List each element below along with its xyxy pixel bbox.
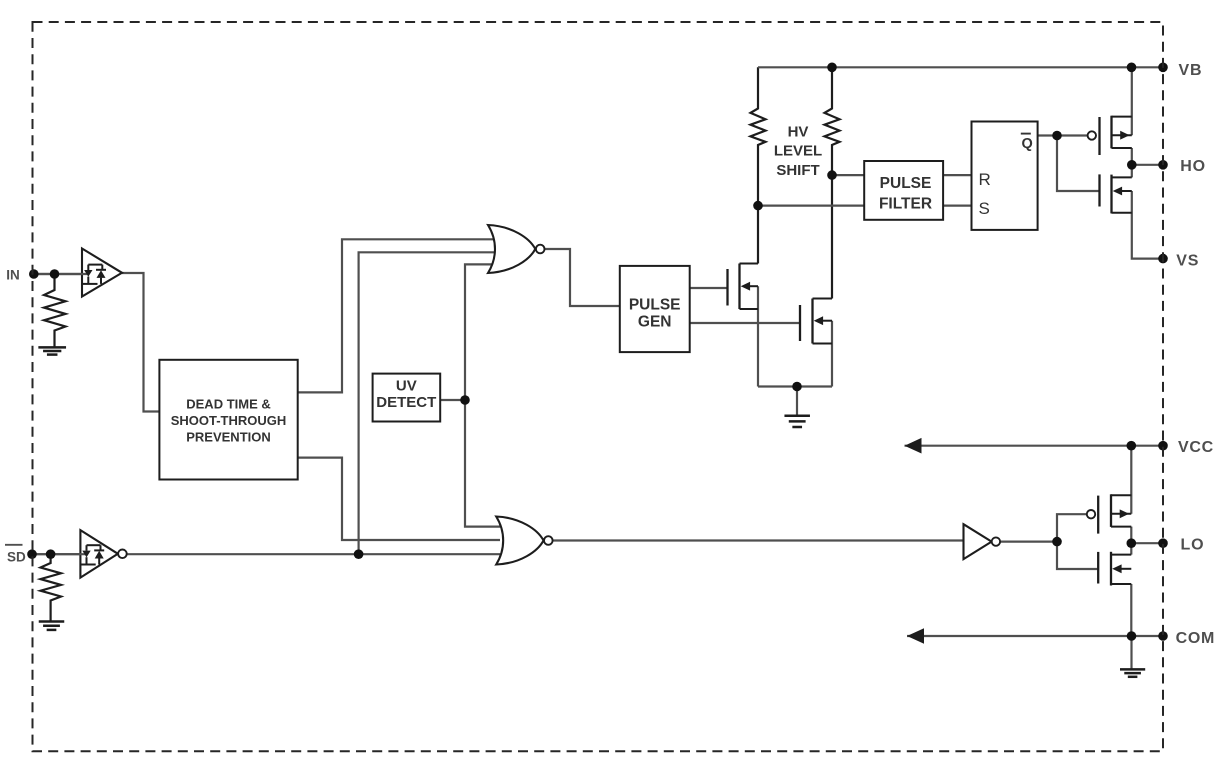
svg-text:VCC: VCC: [1178, 439, 1214, 456]
svg-text:PULSE: PULSE: [880, 175, 932, 192]
svg-text:SHIFT: SHIFT: [776, 162, 819, 179]
svg-text:HV: HV: [788, 123, 809, 140]
svg-text:SHOOT-THROUGH: SHOOT-THROUGH: [171, 413, 287, 428]
svg-text:S: S: [979, 199, 990, 218]
svg-text:DEAD TIME &: DEAD TIME &: [186, 397, 271, 412]
svg-text:LO: LO: [1181, 537, 1205, 554]
svg-text:HO: HO: [1180, 158, 1206, 175]
svg-text:PREVENTION: PREVENTION: [186, 430, 271, 445]
svg-text:VB: VB: [1179, 62, 1203, 79]
svg-text:SD: SD: [7, 549, 26, 564]
svg-text:IN: IN: [6, 267, 19, 282]
svg-text:LEVEL: LEVEL: [774, 142, 822, 159]
svg-text:Q: Q: [1022, 136, 1033, 152]
svg-text:UV: UV: [396, 377, 417, 394]
svg-text:PULSE: PULSE: [629, 296, 681, 313]
svg-text:COM: COM: [1176, 630, 1215, 647]
svg-text:GEN: GEN: [638, 314, 672, 331]
svg-text:FILTER: FILTER: [879, 196, 932, 213]
svg-text:R: R: [979, 170, 991, 189]
svg-text:DETECT: DETECT: [376, 394, 436, 411]
svg-text:VS: VS: [1176, 252, 1199, 269]
